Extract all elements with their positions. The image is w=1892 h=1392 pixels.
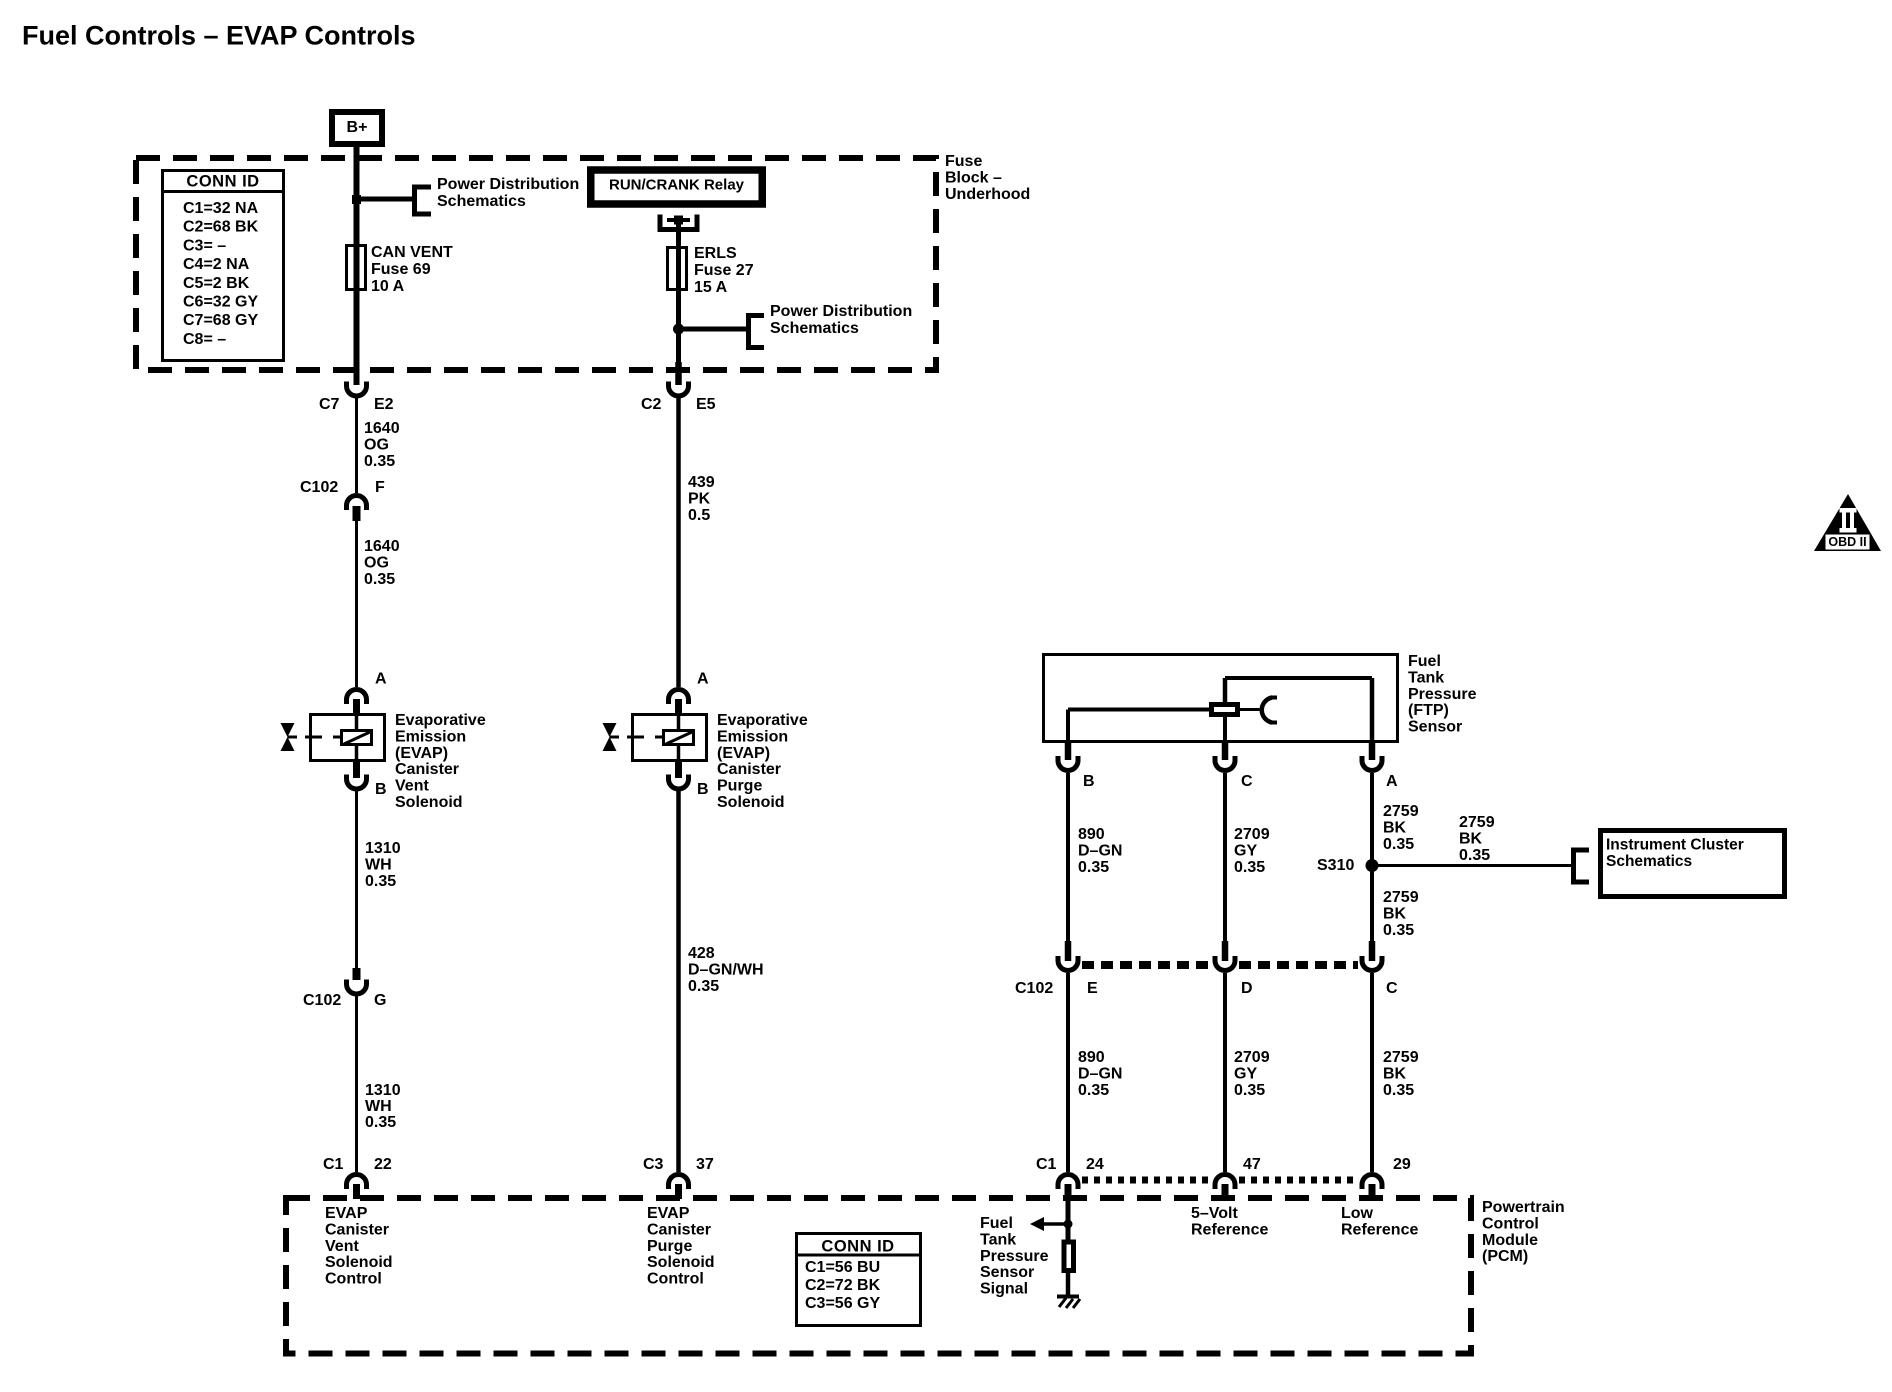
svg-text:0.5: 0.5: [688, 507, 710, 524]
svg-text:0.35: 0.35: [1383, 922, 1414, 939]
svg-text:Tank: Tank: [1408, 669, 1444, 686]
svg-text:Control: Control: [647, 1271, 704, 1288]
svg-text:D–GN: D–GN: [1078, 1066, 1122, 1083]
svg-text:C3=56 GY: C3=56 GY: [805, 1295, 880, 1312]
svg-text:D: D: [1241, 980, 1253, 997]
svg-text:Evaporative: Evaporative: [717, 712, 808, 729]
svg-text:OBD II: OBD II: [1828, 535, 1866, 549]
svg-text:CONN ID: CONN ID: [186, 172, 259, 190]
svg-text:Emission: Emission: [717, 728, 788, 745]
svg-text:Fuel: Fuel: [980, 1215, 1013, 1232]
svg-text:47: 47: [1243, 1156, 1261, 1173]
svg-text:Fuse: Fuse: [945, 153, 982, 170]
svg-text:1640: 1640: [364, 420, 400, 437]
svg-text:Solenoid: Solenoid: [395, 794, 463, 811]
svg-text:A: A: [697, 671, 709, 688]
svg-text:Fuel: Fuel: [1408, 653, 1441, 670]
svg-text:C7: C7: [319, 396, 340, 413]
svg-text:1640: 1640: [364, 538, 400, 555]
svg-text:Schematics: Schematics: [1606, 853, 1692, 870]
svg-text:Module: Module: [1482, 1232, 1538, 1249]
svg-text:C3: C3: [643, 1156, 664, 1173]
svg-text:Tank: Tank: [980, 1231, 1016, 1248]
svg-text:E2: E2: [374, 396, 394, 413]
svg-text:Emission: Emission: [395, 728, 466, 745]
svg-text:0.35: 0.35: [364, 453, 395, 470]
svg-text:Solenoid: Solenoid: [325, 1254, 393, 1271]
svg-text:CAN VENT: CAN VENT: [371, 244, 453, 261]
svg-text:5–Volt: 5–Volt: [1191, 1205, 1239, 1222]
svg-text:C6=32 GY: C6=32 GY: [183, 294, 258, 311]
svg-text:C4=2 NA: C4=2 NA: [183, 256, 250, 273]
svg-text:C: C: [1386, 980, 1398, 997]
svg-text:E: E: [1087, 980, 1098, 997]
svg-text:C1: C1: [323, 1156, 344, 1173]
svg-text:EVAP: EVAP: [647, 1205, 690, 1222]
svg-text:Reference: Reference: [1341, 1222, 1418, 1239]
svg-text:C102: C102: [300, 479, 338, 496]
svg-text:37: 37: [696, 1156, 714, 1173]
svg-text:0.35: 0.35: [365, 873, 396, 890]
svg-text:C: C: [1241, 773, 1253, 790]
svg-text:Vent: Vent: [395, 778, 429, 795]
svg-text:Signal: Signal: [980, 1281, 1028, 1298]
svg-text:Solenoid: Solenoid: [647, 1254, 715, 1271]
svg-text:Purge: Purge: [647, 1238, 692, 1255]
svg-text:C8= –: C8= –: [183, 331, 226, 348]
svg-text:B: B: [1083, 773, 1095, 790]
svg-text:(PCM): (PCM): [1482, 1248, 1528, 1265]
svg-text:A: A: [1386, 773, 1398, 790]
svg-text:2759: 2759: [1383, 803, 1419, 820]
svg-text:D–GN: D–GN: [1078, 843, 1122, 860]
svg-text:439: 439: [688, 474, 715, 491]
svg-text:0.35: 0.35: [1383, 836, 1414, 853]
svg-text:Powertrain: Powertrain: [1482, 1199, 1565, 1216]
svg-text:0.35: 0.35: [1234, 1082, 1265, 1099]
svg-text:0.35: 0.35: [1459, 847, 1490, 864]
svg-text:Solenoid: Solenoid: [717, 794, 785, 811]
svg-text:ERLS: ERLS: [694, 245, 737, 262]
svg-text:BK: BK: [1383, 820, 1407, 837]
svg-text:0.35: 0.35: [1234, 859, 1265, 876]
svg-text:Sensor: Sensor: [980, 1264, 1034, 1281]
svg-text:C2=68 BK: C2=68 BK: [183, 219, 259, 236]
svg-text:428: 428: [688, 945, 715, 962]
svg-text:Schematics: Schematics: [437, 193, 526, 210]
svg-text:(FTP): (FTP): [1408, 702, 1449, 719]
svg-text:Low: Low: [1341, 1205, 1374, 1222]
svg-text:0.35: 0.35: [1078, 859, 1109, 876]
svg-text:Pressure: Pressure: [1408, 686, 1477, 703]
svg-text:890: 890: [1078, 826, 1105, 843]
svg-text:C5=2 BK: C5=2 BK: [183, 275, 250, 292]
svg-text:Instrument Cluster: Instrument Cluster: [1606, 837, 1744, 854]
svg-text:(EVAP): (EVAP): [717, 745, 770, 762]
svg-text:Canister: Canister: [647, 1221, 711, 1238]
svg-text:22: 22: [374, 1156, 392, 1173]
svg-text:C3= –: C3= –: [183, 237, 226, 254]
svg-text:Fuse 69: Fuse 69: [371, 261, 431, 278]
svg-text:Canister: Canister: [717, 761, 781, 778]
svg-text:C7=68 GY: C7=68 GY: [183, 312, 258, 329]
svg-text:A: A: [375, 671, 387, 688]
svg-text:BK: BK: [1383, 906, 1407, 923]
svg-text:Pressure: Pressure: [980, 1248, 1049, 1265]
svg-text:Evaporative: Evaporative: [395, 712, 486, 729]
svg-text:1310: 1310: [365, 1082, 401, 1099]
svg-text:F: F: [375, 479, 385, 496]
svg-text:2759: 2759: [1459, 814, 1495, 831]
svg-text:Schematics: Schematics: [770, 320, 859, 337]
svg-text:B: B: [375, 781, 387, 798]
svg-text:B: B: [697, 781, 709, 798]
svg-text:Fuel Controls – EVAP Controls: Fuel Controls – EVAP Controls: [22, 21, 416, 51]
svg-text:0.35: 0.35: [688, 978, 719, 995]
svg-text:0.35: 0.35: [365, 1114, 396, 1131]
svg-text:OG: OG: [364, 437, 389, 454]
svg-text:Reference: Reference: [1191, 1222, 1268, 1239]
svg-text:Power Distribution: Power Distribution: [437, 176, 579, 193]
svg-text:C102: C102: [1015, 980, 1053, 997]
svg-text:GY: GY: [1234, 1066, 1257, 1083]
svg-text:1310: 1310: [365, 840, 401, 857]
svg-text:B+: B+: [347, 119, 368, 136]
svg-text:Sensor: Sensor: [1408, 719, 1462, 736]
svg-text:Canister: Canister: [395, 761, 459, 778]
svg-text:2709: 2709: [1234, 826, 1270, 843]
svg-text:10 A: 10 A: [371, 278, 405, 295]
svg-text:G: G: [374, 992, 386, 1009]
svg-text:Vent: Vent: [325, 1238, 359, 1255]
svg-text:Underhood: Underhood: [945, 186, 1030, 203]
svg-text:2759: 2759: [1383, 1049, 1419, 1066]
svg-text:0.35: 0.35: [364, 571, 395, 588]
svg-text:OG: OG: [364, 555, 389, 572]
svg-text:C2: C2: [641, 396, 662, 413]
svg-text:Purge: Purge: [717, 778, 762, 795]
svg-text:(EVAP): (EVAP): [395, 745, 448, 762]
svg-text:RUN/CRANK Relay: RUN/CRANK Relay: [609, 176, 745, 193]
svg-text:C1: C1: [1036, 1156, 1057, 1173]
svg-text:24: 24: [1086, 1156, 1104, 1173]
svg-text:Control: Control: [1482, 1215, 1539, 1232]
svg-text:BK: BK: [1459, 831, 1483, 848]
svg-text:C1=56 BU: C1=56 BU: [805, 1259, 880, 1276]
svg-text:2709: 2709: [1234, 1049, 1270, 1066]
svg-text:C2=72 BK: C2=72 BK: [805, 1277, 881, 1294]
svg-text:D–GN/WH: D–GN/WH: [688, 962, 764, 979]
svg-text:S310: S310: [1317, 857, 1354, 874]
svg-text:EVAP: EVAP: [325, 1205, 368, 1222]
svg-text:2759: 2759: [1383, 889, 1419, 906]
svg-text:Control: Control: [325, 1271, 382, 1288]
svg-text:15 A: 15 A: [694, 279, 728, 296]
svg-text:E5: E5: [696, 396, 716, 413]
svg-text:Canister: Canister: [325, 1221, 389, 1238]
svg-text:BK: BK: [1383, 1066, 1407, 1083]
svg-text:GY: GY: [1234, 843, 1257, 860]
svg-text:WH: WH: [365, 1098, 392, 1115]
svg-text:C1=32 NA: C1=32 NA: [183, 200, 259, 217]
svg-text:CONN ID: CONN ID: [821, 1237, 894, 1255]
svg-text:890: 890: [1078, 1049, 1105, 1066]
svg-text:0.35: 0.35: [1383, 1082, 1414, 1099]
svg-text:Fuse 27: Fuse 27: [694, 262, 754, 279]
svg-text:0.35: 0.35: [1078, 1082, 1109, 1099]
svg-text:C102: C102: [303, 992, 341, 1009]
svg-text:WH: WH: [365, 857, 392, 874]
svg-text:Power Distribution: Power Distribution: [770, 303, 912, 320]
svg-text:29: 29: [1393, 1156, 1411, 1173]
svg-text:Block –: Block –: [945, 169, 1002, 186]
svg-text:PK: PK: [688, 491, 711, 508]
